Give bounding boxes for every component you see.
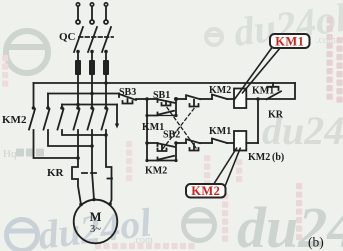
svg-text:3~: 3~	[90, 224, 101, 235]
svg-text:KM2: KM2	[145, 166, 167, 177]
svg-text:KM2: KM2	[209, 85, 231, 96]
svg-text:KM2: KM2	[248, 152, 270, 163]
svg-text:SB3: SB3	[119, 87, 136, 98]
svg-text:SB2: SB2	[163, 130, 180, 141]
svg-text:du24: du24	[237, 195, 343, 251]
svg-text:KR: KR	[47, 167, 65, 179]
svg-text:KM1: KM1	[275, 35, 304, 49]
svg-text:.com: .com	[316, 35, 336, 46]
svg-text:M: M	[90, 210, 102, 224]
svg-text:KM1: KM1	[252, 86, 274, 97]
svg-text:KM1: KM1	[209, 126, 231, 137]
svg-text:SB1: SB1	[153, 90, 170, 101]
svg-text:KM1: KM1	[142, 122, 164, 133]
svg-text:KM2: KM2	[191, 184, 220, 198]
svg-text:KM2: KM2	[2, 114, 27, 126]
svg-text:(b): (b)	[272, 152, 284, 163]
svg-text:Hq: Hq	[3, 148, 17, 160]
svg-text:KR: KR	[268, 110, 284, 121]
svg-text:QC: QC	[59, 31, 76, 43]
svg-text:(b): (b)	[308, 235, 324, 250]
